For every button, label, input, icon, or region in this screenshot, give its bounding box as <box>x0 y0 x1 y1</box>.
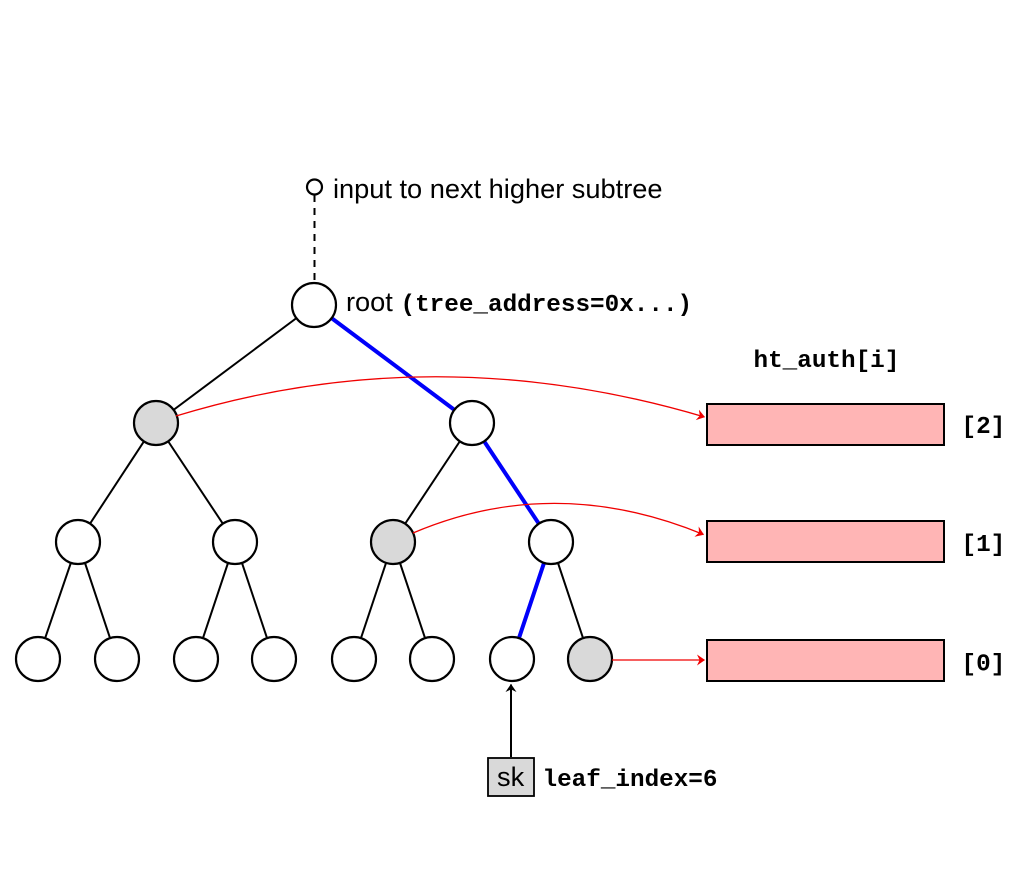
node L2c gray <box>371 520 415 564</box>
register ht_auth[2] <box>707 404 944 445</box>
node L2d <box>529 520 573 564</box>
node leaf6 <box>490 637 534 681</box>
node leaf7 gray <box>568 637 612 681</box>
wire red arrow L2c to ht_auth[1] <box>413 503 704 534</box>
node input-stub <box>307 180 322 195</box>
node leaf3 <box>252 637 296 681</box>
node L1-right <box>450 401 494 445</box>
edge L2c to leaf5 <box>393 542 432 659</box>
svg-text:[0]: [0] <box>962 652 1006 679</box>
edge L2a to leaf0 <box>38 542 78 659</box>
wire arrow sk to leaf6 <box>510 685 512 758</box>
edge L1-right to L2c <box>393 423 472 542</box>
svg-text:ht_auth[i]: ht_auth[i] <box>754 348 900 375</box>
svg-text:[1]: [1] <box>962 532 1006 559</box>
svg-text:sk: sk <box>497 761 525 792</box>
node leaf5 <box>410 637 454 681</box>
node leaf4 <box>332 637 376 681</box>
edge L2b to leaf3 <box>235 542 274 659</box>
edge root to L1-left <box>156 305 314 423</box>
node leaf0 <box>16 637 60 681</box>
register ht_auth[1] <box>707 521 944 562</box>
edge L2c to leaf4 <box>354 542 393 659</box>
wire dashed: input stub to root <box>314 195 316 283</box>
svg-text:input to next higher subtree: input to next higher subtree <box>333 173 663 204</box>
box sk <box>488 758 534 796</box>
wire red arrow leaf7 to ht_auth[0] <box>612 659 705 661</box>
svg-text:(tree_address=0x...): (tree_address=0x...) <box>401 292 693 319</box>
svg-text:leaf_index=6: leaf_index=6 <box>543 767 718 794</box>
node leaf1 <box>95 637 139 681</box>
edge L1-left to L2b <box>156 423 235 542</box>
svg-text:root: root <box>346 286 393 317</box>
register ht_auth[0] <box>707 640 944 681</box>
node L2b <box>213 520 257 564</box>
wire blue authentication path root-L1right-L2d-leaf6 <box>314 305 551 659</box>
edge L1-left to L2a <box>78 423 156 542</box>
node leaf2 <box>174 637 218 681</box>
edge L2b to leaf2 <box>196 542 235 659</box>
node L1-left gray <box>134 401 178 445</box>
edge L2a to leaf1 <box>78 542 117 659</box>
wire red arrow L1-left to ht_auth[2] <box>176 377 705 417</box>
node L2a <box>56 520 100 564</box>
edge L2d to leaf7 <box>551 542 590 659</box>
svg-text:[2]: [2] <box>962 414 1006 441</box>
node root <box>292 283 336 327</box>
